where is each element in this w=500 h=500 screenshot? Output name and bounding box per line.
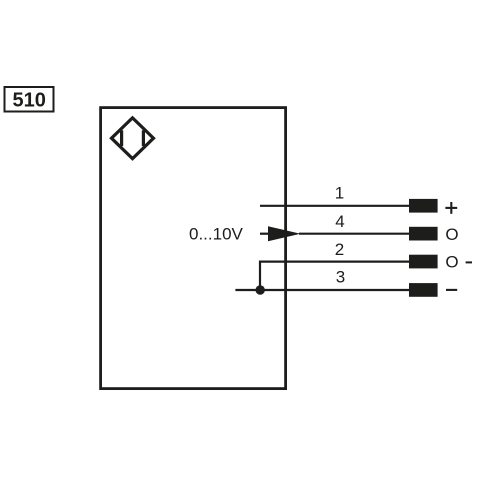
figure label box 510 <box>5 87 54 112</box>
svg-text:2: 2 <box>335 240 344 259</box>
terminal block pin 1 <box>409 199 438 213</box>
wire pin 2 with corner <box>260 262 410 290</box>
terminal block pin 3 <box>409 283 438 297</box>
amplifier arrow on wire 4 <box>268 226 301 241</box>
terminal block pin 4 <box>409 227 438 241</box>
wire pin 3 <box>235 289 410 291</box>
svg-text:1: 1 <box>335 184 344 203</box>
wire pin 4 <box>299 233 410 235</box>
svg-text:4: 4 <box>335 212 344 231</box>
label minus <box>446 289 457 291</box>
svg-text:O: O <box>445 225 458 244</box>
sensor symbol diamond <box>112 118 154 159</box>
sensor body outline <box>101 108 286 389</box>
svg-text:O: O <box>445 253 458 272</box>
svg-text:3: 3 <box>336 268 345 287</box>
wire pin 1 <box>260 205 410 207</box>
svg-text:0...10V: 0...10V <box>189 225 244 244</box>
terminal block pin 2 <box>409 255 438 269</box>
label plus <box>445 202 457 214</box>
svg-text:510: 510 <box>13 89 46 111</box>
junction dot <box>256 285 265 294</box>
wire pin 4 stub <box>260 233 269 235</box>
